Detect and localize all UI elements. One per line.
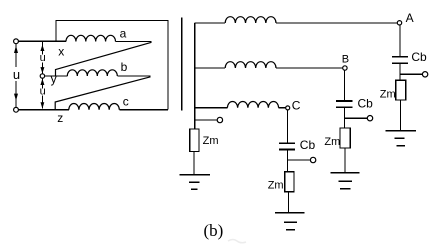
ground rail (180, 175, 211, 189)
voltage arrow u left lower head (14, 94, 18, 101)
svg-text:u: u (13, 67, 20, 82)
left rail of secondary circuit (194, 23, 196, 129)
wire impedance A to ground (400, 100, 402, 131)
inductor bottom phase (227, 102, 278, 108)
impedance Zm B (340, 128, 350, 148)
svg-text:a: a (120, 27, 127, 41)
svg-text:y: y (51, 72, 57, 86)
voltage arrow u mid lower down-head (41, 102, 45, 108)
stub wire rail with terminal (195, 119, 218, 121)
wire capacitor C to impedance (287, 150, 289, 171)
impedance Zm rail (190, 129, 199, 152)
wire node A down to capacitor (399, 25, 401, 56)
stub terminal B (367, 116, 372, 121)
svg-text:Zm: Zm (380, 88, 396, 100)
winding c coil (69, 103, 119, 109)
ground B (331, 173, 360, 189)
wire top terminal to winding a start (19, 40, 67, 42)
svg-text:Cb: Cb (358, 96, 374, 110)
svg-text:b: b (121, 60, 128, 74)
svg-text:u: u (40, 52, 46, 64)
svg-text:Zm: Zm (324, 136, 340, 148)
voltage arrow u mid lower shaft (41, 78, 43, 108)
winding a coil (66, 35, 116, 41)
wire capacitor B to impedance (344, 108, 346, 128)
wire slant winding b end to winding c start (55, 77, 150, 110)
impedance Zm C (285, 172, 294, 192)
svg-text:Zm: Zm (203, 135, 219, 147)
stub wire A with terminal (400, 73, 423, 75)
capacitor Cb A (392, 57, 408, 63)
voltage arrow u mid upper shaft (41, 42, 43, 74)
wire bottom branch from rail (195, 107, 228, 109)
inductor top phase (225, 17, 276, 23)
node C (286, 106, 290, 110)
wire middle branch from rail (195, 67, 226, 69)
capacitor Cb C (279, 143, 295, 149)
voltage arrow u left upper shaft (15, 44, 17, 67)
voltage arrow u left lower shaft (15, 81, 17, 107)
transformer core line (181, 17, 183, 110)
svg-text:C: C (292, 98, 301, 112)
wire impedance rail to ground (193, 152, 195, 175)
wire top branch to node A (276, 22, 397, 24)
svg-text:c: c (123, 94, 129, 108)
ground A (385, 131, 416, 146)
svg-text:(b): (b) (204, 221, 224, 240)
svg-text:Cb: Cb (300, 138, 316, 152)
svg-text:u: u (40, 86, 46, 98)
wire impedance B to ground (344, 148, 346, 173)
stub wire B with terminal (345, 117, 368, 119)
voltage arrow u mid upper up-head (40, 45, 44, 51)
stub terminal rail (217, 117, 222, 122)
wire node B down to capacitor (344, 70, 346, 100)
svg-text:B: B (342, 54, 349, 66)
wire top branch from rail (195, 22, 226, 24)
wire winding b to tip (117, 75, 150, 77)
wire winding a to tip (116, 41, 152, 43)
wire impedance C to ground (287, 192, 289, 213)
terminal top-left (14, 39, 19, 44)
svg-text:A: A (406, 11, 414, 25)
wire mid tap to winding b start (45, 75, 68, 77)
stub terminal A (422, 72, 427, 77)
wire bottom branch to node C (279, 107, 286, 109)
node B (343, 66, 347, 70)
svg-text:Zm: Zm (268, 179, 284, 191)
node mid tap (40, 74, 44, 78)
wire loop winding a start up over to winding c end (56, 21, 168, 110)
svg-text:Cb: Cb (411, 50, 427, 64)
svg-text:z: z (57, 111, 63, 125)
voltage arrow u left upper head (14, 46, 18, 53)
winding b coil (67, 70, 117, 76)
wire middle branch to node B (276, 67, 343, 69)
wire node C down to capacitor (287, 110, 289, 142)
capacitor Cb B (336, 101, 352, 107)
inductor middle phase (225, 62, 276, 68)
wire bottom terminal to winding c start (19, 109, 69, 111)
voltage arrow u mid lower up-head (40, 79, 44, 85)
svg-text:x: x (58, 44, 64, 58)
stub wire C with terminal (288, 159, 311, 161)
impedance Zm A (396, 80, 406, 100)
stub terminal C (310, 157, 315, 162)
wire winding c end to box right edge (119, 109, 168, 111)
watermark fragment (228, 240, 246, 243)
terminal bottom-left (14, 107, 19, 112)
wire capacitor A to impedance (399, 64, 401, 80)
ground C (275, 213, 305, 230)
wire slant winding a end to winding b start (56, 42, 152, 76)
voltage arrow u mid upper down-head (40, 67, 44, 73)
node A (397, 21, 401, 25)
